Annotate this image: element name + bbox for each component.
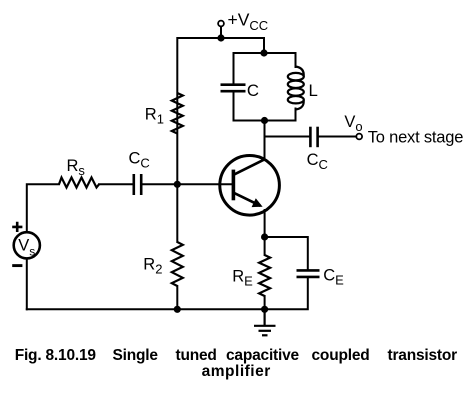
wire emitter (264, 210, 266, 237)
junction RE bottom (261, 306, 268, 313)
wire CE bottom (265, 278, 308, 310)
wire Vs bottom (26, 259, 28, 309)
junction base node (174, 181, 181, 188)
wire emitter node to RE (264, 237, 266, 255)
transistor emitter line (234, 193, 261, 206)
svg-text:C: C (247, 81, 259, 100)
capacitor Cc output plates (309, 127, 312, 148)
svg-text:L: L (309, 81, 318, 100)
source Vs minus sign (12, 264, 22, 267)
wire tank bottom (234, 120, 296, 122)
wire L branch top (295, 53, 297, 67)
Vcc terminal stem (220, 27, 222, 38)
wire R2 bottom (176, 286, 178, 309)
wire tank top (234, 52, 296, 54)
transistor emitter arrowhead (252, 198, 263, 207)
resistor RE (259, 255, 270, 296)
capacitor CE plates (297, 269, 320, 272)
caption line 1 (15, 347, 457, 364)
wire R2 top (176, 184, 178, 242)
resistor R1 (172, 93, 183, 134)
svg-text:To next stage: To next stage (368, 128, 464, 146)
ground symbol (254, 309, 276, 335)
wire output to Cc (265, 136, 310, 138)
svg-text:Single: Single (113, 347, 159, 364)
wire top rail (177, 38, 264, 184)
wire Cc to Vo terminal (319, 136, 357, 138)
transistor collector line (234, 159, 265, 175)
wire bottom rail (27, 308, 265, 310)
svg-text:amplifier: amplifier (202, 363, 271, 380)
inductor L coils (288, 73, 304, 80)
wire L branch bottom (295, 109, 297, 121)
Vcc open terminal (218, 21, 224, 27)
source Vs circle (14, 232, 40, 258)
resistor Rs (59, 178, 99, 188)
wire input Cc to base node (142, 183, 178, 185)
svg-text:capacitive: capacitive (226, 347, 300, 364)
wire collector (264, 121, 266, 159)
wire RE bottom (264, 296, 266, 309)
wire C branch bottom (233, 92, 235, 121)
junction tank top (260, 49, 267, 56)
wire CE branch (265, 237, 308, 270)
svg-text:tuned: tuned (176, 347, 217, 364)
junction emitter node (261, 233, 268, 240)
wire C branch top (233, 53, 235, 84)
capacitor C plates (221, 83, 246, 86)
wire base (177, 183, 232, 185)
junction R2 bottom (174, 306, 181, 313)
source Vs plus sign (12, 222, 22, 232)
Vo open terminal (356, 134, 362, 140)
resistor R2 (172, 242, 183, 286)
junction tank bottom (261, 117, 268, 124)
svg-text:8.10.19: 8.10.19 (46, 347, 97, 364)
capacitor Cc input plates (133, 174, 136, 195)
svg-text:Fig.: Fig. (15, 347, 42, 364)
transistor Q1 circle (220, 156, 280, 216)
svg-text:coupled: coupled (312, 347, 370, 364)
junction at Vcc (217, 34, 224, 41)
wire Rs to Cc (99, 183, 133, 185)
transistor base bar (232, 170, 236, 201)
svg-text:transistor: transistor (388, 347, 458, 364)
wire Vs to Rs (27, 184, 59, 231)
